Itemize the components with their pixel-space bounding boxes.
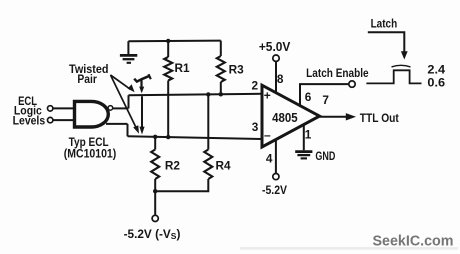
svg-text:Latch: Latch: [371, 16, 398, 30]
svg-text:1: 1: [305, 128, 312, 142]
svg-text:2.4: 2.4: [427, 62, 445, 76]
svg-text:Pair: Pair: [77, 72, 97, 86]
svg-text:0.6: 0.6: [427, 75, 445, 89]
svg-text:-5.2V (-VS): -5.2V (-VS): [124, 227, 181, 241]
svg-text:R1: R1: [174, 61, 190, 75]
svg-text:-5.2V: -5.2V: [262, 183, 287, 197]
svg-text:TTL Out: TTL Out: [360, 111, 399, 125]
svg-text:Levels: Levels: [13, 114, 46, 128]
svg-text:4: 4: [266, 151, 273, 165]
svg-text:(MC10101): (MC10101): [64, 147, 117, 161]
svg-text:R2: R2: [165, 158, 181, 172]
svg-text:+: +: [264, 88, 271, 102]
svg-text:R3: R3: [229, 63, 245, 77]
svg-text:–: –: [264, 128, 271, 142]
svg-text:8: 8: [277, 72, 284, 86]
svg-text:2: 2: [252, 79, 259, 93]
svg-text:4805: 4805: [272, 110, 298, 125]
svg-text:6: 6: [305, 90, 312, 104]
svg-text:+5.0V: +5.0V: [259, 40, 291, 54]
svg-text:3: 3: [252, 120, 259, 134]
svg-text:GND: GND: [315, 149, 335, 163]
svg-text:R4: R4: [215, 158, 231, 172]
svg-text:7: 7: [322, 93, 329, 107]
svg-text:Latch Enable: Latch Enable: [306, 66, 369, 80]
